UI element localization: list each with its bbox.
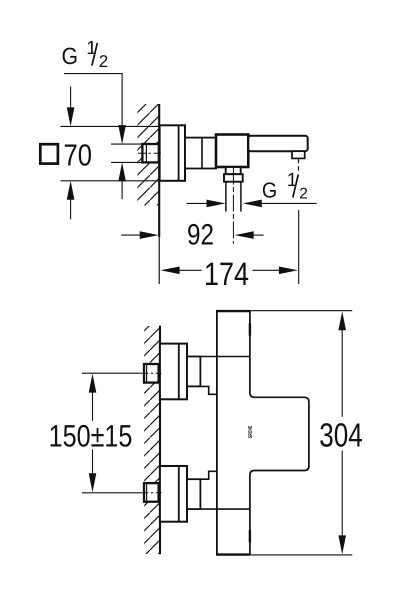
lower inlet nut (lower view) [144, 483, 159, 502]
label square symbol [40, 144, 58, 163]
upper inlet nut (lower view) [144, 364, 159, 383]
outlet pipe centerline [232, 168, 234, 244]
upper escutcheon (lower view) [160, 344, 187, 400]
nut top extension line [111, 143, 142, 145]
dimension 70 lower arrow [67, 181, 75, 220]
dimension 174 right arrow [253, 267, 298, 275]
wall line (lower view) [159, 326, 161, 555]
dimension 92 right arrow [235, 231, 264, 239]
dimension 150 lower arrow [89, 450, 97, 493]
dim 150 lower extension line [82, 492, 140, 494]
lower nut centerline [140, 492, 161, 494]
safety button upper [249, 324, 251, 336]
upper union bottom step [200, 386, 217, 394]
aerator dashed centerline [298, 159, 300, 172]
dim 304 lower extension line [251, 554, 353, 556]
svg-text:70: 70 [64, 138, 93, 172]
aerator [292, 151, 305, 158]
body column bottom edge [216, 553, 251, 555]
escutcheon bottom extension line [61, 180, 160, 182]
lower union top step [200, 471, 217, 479]
safety button lower [249, 530, 251, 542]
body column left edge [216, 311, 218, 556]
escutcheon (upper view) [160, 125, 185, 181]
outlet pipe left edge [225, 182, 227, 212]
lower union cylinder (lower view) [187, 479, 200, 509]
spout (upper view) [248, 136, 307, 151]
label G 1/2 (outlet) [262, 170, 308, 203]
label G 1/2 (top) [62, 38, 109, 71]
union cylinder (upper view) [185, 138, 216, 169]
wall line (upper view) [158, 104, 160, 237]
lower escutcheon (lower view) [160, 466, 187, 522]
shower outlet neck [226, 167, 241, 174]
svg-text:304: 304 [319, 418, 363, 455]
dimension 70 upper arrow [67, 87, 75, 127]
inlet nut centerline [138, 152, 161, 154]
dimension 150 upper arrow [89, 374, 97, 421]
spout outlet extension line [298, 210, 300, 284]
svg-text:150±15: 150±15 [49, 418, 133, 453]
handle cube (upper view) [216, 135, 248, 168]
lower union bottom line [200, 508, 250, 510]
upper nut centerline [140, 372, 161, 374]
shower outlet collar [224, 174, 243, 182]
dim 150 upper extension line [82, 372, 140, 374]
G 1/2 leader (top) [64, 74, 126, 145]
body column right edge and spout plate [250, 311, 309, 556]
upper union cylinder (lower view) [187, 357, 200, 387]
wall hatching (upper view) [137, 104, 159, 206]
dim 304 upper extension line [251, 310, 353, 312]
G 1/2 leader (outlet) [243, 200, 317, 208]
svg-text:GROHE: GROHE [248, 426, 254, 439]
thread stub arrow (outlet) [187, 200, 226, 208]
inlet nut (upper view) [142, 144, 158, 162]
upper union top line [200, 356, 250, 358]
body column top edge [216, 310, 251, 312]
svg-text:174: 174 [204, 256, 249, 292]
dimension 92 left arrow [121, 231, 159, 239]
wall hatching (lower view) [144, 326, 160, 554]
escutcheon top extension line [61, 125, 160, 127]
outlet pipe right edge [240, 182, 242, 212]
dimension 304 lower arrow [338, 451, 346, 555]
svg-text:G: G [262, 177, 277, 202]
svg-text:92: 92 [187, 218, 214, 251]
nut bottom extension line [111, 161, 142, 163]
dimension 174 left arrow [161, 267, 202, 275]
svg-text:2: 2 [99, 52, 108, 71]
svg-text:2: 2 [299, 186, 308, 203]
thread lower arrow [118, 162, 126, 199]
svg-text:G: G [62, 43, 79, 69]
dimension 304 upper arrow [338, 311, 346, 417]
